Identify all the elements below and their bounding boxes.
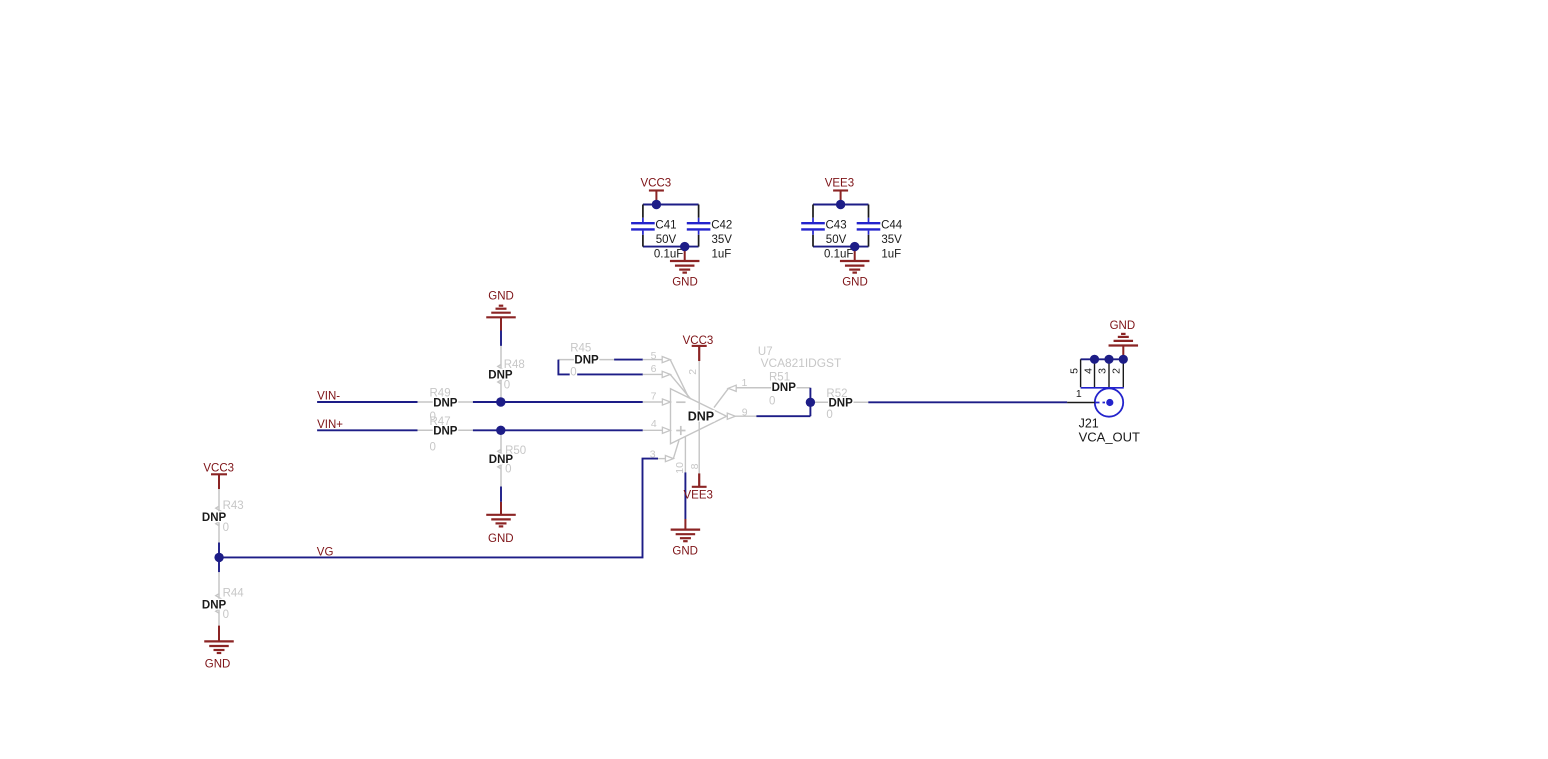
- svg-text:35V: 35V: [881, 234, 902, 246]
- svg-text:0: 0: [570, 366, 576, 378]
- svg-text:VCA_OUT: VCA_OUT: [1079, 429, 1140, 444]
- svg-text:0: 0: [223, 522, 229, 534]
- svg-text:R44: R44: [223, 587, 245, 599]
- svg-text:1: 1: [742, 377, 748, 389]
- svg-text:DNP: DNP: [829, 398, 854, 410]
- svg-text:0: 0: [826, 409, 832, 421]
- svg-text:9: 9: [742, 406, 748, 418]
- svg-text:1uF: 1uF: [712, 248, 732, 260]
- svg-text:VG: VG: [317, 547, 334, 559]
- svg-text:J21: J21: [1079, 416, 1099, 430]
- svg-text:3: 3: [650, 448, 656, 460]
- svg-text:2: 2: [687, 369, 699, 375]
- svg-text:GND: GND: [205, 659, 231, 671]
- svg-text:R43: R43: [223, 500, 244, 512]
- svg-text:VCC3: VCC3: [203, 463, 234, 475]
- svg-text:DNP: DNP: [574, 355, 599, 367]
- svg-text:10: 10: [674, 462, 686, 474]
- svg-text:7: 7: [651, 391, 657, 403]
- svg-text:GND: GND: [488, 533, 514, 545]
- svg-text:0: 0: [223, 609, 229, 621]
- svg-text:1uF: 1uF: [881, 248, 901, 260]
- svg-text:1: 1: [1076, 388, 1082, 400]
- svg-text:DNP: DNP: [688, 409, 714, 423]
- svg-text:4: 4: [651, 418, 657, 430]
- svg-text:2: 2: [1110, 368, 1122, 374]
- svg-text:DNP: DNP: [772, 382, 797, 394]
- svg-text:C42: C42: [711, 220, 732, 232]
- svg-text:GND: GND: [1110, 320, 1136, 332]
- svg-text:R45: R45: [570, 342, 591, 354]
- svg-text:6: 6: [651, 363, 657, 375]
- svg-text:GND: GND: [672, 546, 698, 558]
- svg-text:DNP: DNP: [433, 426, 458, 438]
- svg-text:VIN+: VIN+: [317, 419, 343, 431]
- svg-text:4: 4: [1083, 368, 1095, 374]
- svg-text:0.1uF: 0.1uF: [824, 248, 853, 260]
- svg-text:VEE3: VEE3: [825, 178, 854, 190]
- svg-text:5: 5: [1069, 368, 1081, 374]
- svg-text:GND: GND: [488, 291, 514, 303]
- svg-text:C41: C41: [655, 220, 676, 232]
- svg-text:5: 5: [651, 350, 657, 362]
- svg-text:0: 0: [505, 464, 511, 476]
- svg-text:C44: C44: [881, 220, 903, 232]
- svg-text:GND: GND: [672, 277, 698, 289]
- svg-text:VCC3: VCC3: [641, 178, 672, 190]
- svg-text:VEE3: VEE3: [684, 490, 713, 502]
- svg-text:50V: 50V: [656, 234, 677, 246]
- svg-text:3: 3: [1097, 368, 1109, 374]
- svg-text:GND: GND: [842, 277, 868, 289]
- svg-text:50V: 50V: [826, 234, 847, 246]
- svg-text:C43: C43: [826, 220, 847, 232]
- svg-text:0: 0: [504, 380, 510, 392]
- svg-text:VIN-: VIN-: [317, 390, 340, 402]
- svg-text:DNP: DNP: [433, 397, 458, 409]
- svg-text:VCA821IDGST: VCA821IDGST: [761, 356, 842, 370]
- svg-text:0: 0: [769, 395, 775, 407]
- svg-text:35V: 35V: [712, 234, 733, 246]
- svg-text:8: 8: [689, 463, 701, 469]
- svg-text:0.1uF: 0.1uF: [654, 248, 683, 260]
- svg-text:0: 0: [430, 442, 436, 454]
